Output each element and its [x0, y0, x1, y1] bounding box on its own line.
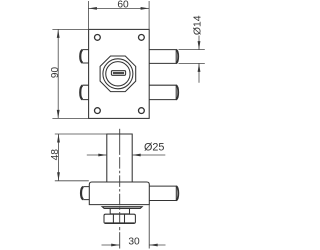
nut face line right — [124, 214, 126, 223]
cylinder ring octagon — [100, 56, 136, 92]
cylinder outer circle — [103, 59, 133, 89]
left tab (bolt tail) upper — [83, 50, 89, 63]
svg-text:90: 90 — [50, 67, 61, 79]
left button — [83, 187, 89, 200]
dim 60 line — [88, 7, 149, 9]
screw hole top-left — [95, 35, 101, 41]
svg-text:Ø14: Ø14 — [193, 15, 204, 35]
cylinder inner circle — [106, 62, 130, 86]
nut bottom heavy edge — [105, 222, 134, 224]
arrow 30 right — [149, 244, 158, 247]
arrowheads — [57, 7, 201, 246]
centerline dash below nut — [119, 227, 121, 230]
dim 30 line left tail — [102, 244, 120, 246]
arrow 30 left — [111, 244, 120, 247]
dim d14 extension lines — [179, 49, 205, 51]
arrow 48 top — [57, 134, 60, 143]
arrow d25 left — [98, 154, 107, 157]
arrow 90 bottom — [57, 110, 60, 119]
plate (top view body) — [89, 29, 150, 118]
nut face line left — [112, 214, 114, 223]
svg-text:48: 48 — [50, 149, 61, 161]
arrow d14 bottom — [198, 63, 201, 72]
left tab (bolt tail) lower — [83, 85, 89, 99]
screw hole bottom-left — [95, 108, 101, 114]
centerline solid tail (30-dim extension) — [119, 232, 121, 248]
dim d14 line upper tail — [198, 36, 200, 50]
centerline dash-dot run — [119, 153, 121, 225]
barrel (vertical cylinder) — [107, 134, 132, 182]
screw hole bottom-right — [139, 108, 145, 114]
collar — [110, 209, 129, 214]
right bolt cylinder upper — [149, 50, 176, 64]
svg-text:30: 30 — [128, 237, 140, 248]
nut — [104, 214, 135, 223]
svg-text:60: 60 — [117, 0, 129, 11]
centerline solid head — [119, 129, 121, 153]
arrow 90 top — [57, 29, 60, 38]
dim 60 extension lines — [87, 1, 89, 29]
screw hole top-right — [139, 35, 145, 41]
right bolt cylinder lower — [149, 85, 176, 99]
dimension texts — [50, 0, 203, 247]
dim d25 left leader — [87, 154, 107, 156]
dim 48 extension lines — [55, 133, 107, 135]
dim d14 line lower tail — [198, 63, 200, 82]
deadbolt (side view) — [149, 186, 176, 200]
cylinder brand label — [111, 71, 125, 76]
arrow 48 bottom — [57, 172, 60, 181]
dim 48 line — [58, 134, 60, 181]
dim 90 extension lines — [52, 28, 88, 30]
washer flange — [102, 207, 142, 209]
svg-text:Ø25: Ø25 — [144, 141, 164, 153]
lock body — [89, 182, 149, 205]
arrow d25 right — [132, 154, 141, 157]
dim d25 right leader — [132, 154, 165, 156]
arrow 60 right — [141, 7, 150, 10]
dim 30 line right tail — [149, 244, 165, 246]
arrow d14 top — [198, 41, 201, 50]
arrow 60 left — [88, 7, 97, 10]
dim 90 line — [57, 29, 59, 118]
body right edge extension to 30-dim — [148, 205, 150, 249]
